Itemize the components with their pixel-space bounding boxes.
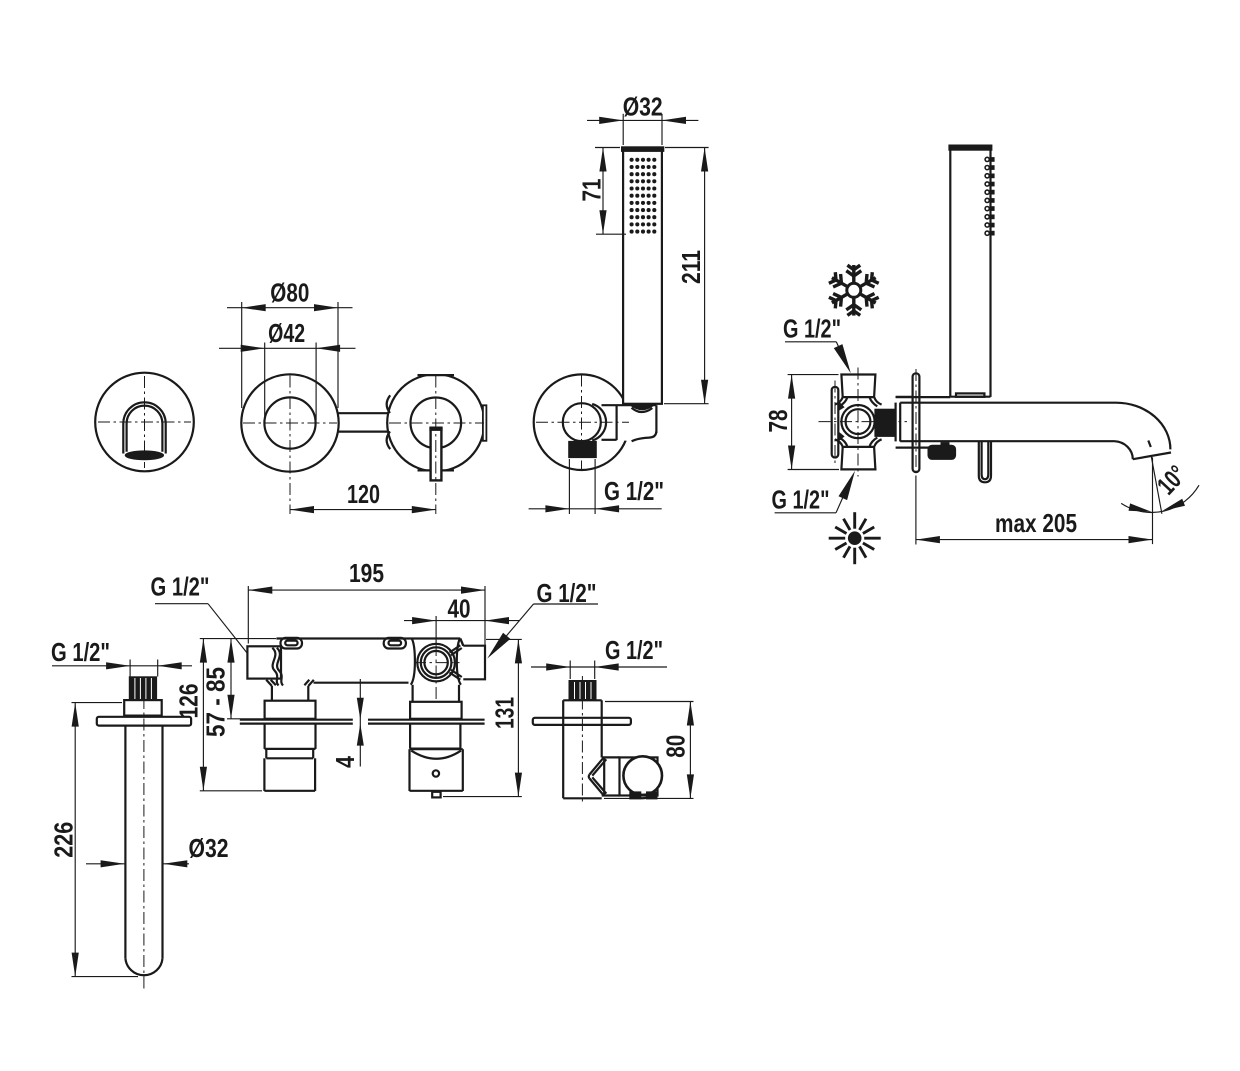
svg-text:4: 4 xyxy=(330,756,360,768)
handle trim bottom chord tab xyxy=(418,469,455,471)
mixer trim inner circle xyxy=(264,397,315,448)
holder centerline horizontal xyxy=(536,421,629,423)
svg-text:80: 80 xyxy=(660,735,690,758)
hose connection hook xyxy=(979,442,991,483)
beam break squiggle double S xyxy=(272,648,278,686)
dimension 211 (wand length) xyxy=(704,148,706,404)
svg-text:max 205: max 205 xyxy=(995,508,1077,538)
mixer trim centerlines xyxy=(243,422,337,424)
spout collar xyxy=(894,403,896,442)
holder outlet depth arc xyxy=(592,404,606,441)
holder clamp black grips xyxy=(630,792,641,799)
left valve ring xyxy=(265,749,267,758)
holder flange plate xyxy=(533,718,631,725)
hand shower wand top cap xyxy=(622,147,664,152)
hand shower wand side view body xyxy=(949,149,951,397)
left valve collar xyxy=(265,701,316,719)
spout escutcheon centerlines xyxy=(98,421,191,423)
cold water snowflake icon xyxy=(829,265,879,316)
beam top edge xyxy=(277,637,461,639)
svg-text:Ø42: Ø42 xyxy=(268,318,305,348)
spout tube centerline xyxy=(143,697,145,990)
spout flange plate xyxy=(97,717,191,726)
wall mounting plate (behind wall) xyxy=(832,387,839,458)
angle extension slanted 10 deg xyxy=(1151,456,1162,514)
valve centerline vertical xyxy=(857,368,859,477)
svg-text:Ø32: Ø32 xyxy=(623,92,663,122)
svg-text:Ø80: Ø80 xyxy=(270,278,309,308)
wall escutcheon plate side view xyxy=(913,373,920,472)
hand shower wand side view top cap xyxy=(949,145,992,150)
svg-text:G 1/2": G 1/2" xyxy=(605,635,663,665)
right valve body waists xyxy=(411,639,415,685)
svg-text:120: 120 xyxy=(347,479,380,509)
handle trim right tab xyxy=(483,405,487,441)
dimension 131 (total depth) xyxy=(517,639,519,796)
holder thread black block xyxy=(569,681,596,701)
holder bracket wavy bottom edge xyxy=(632,431,657,441)
escutcheon centerline xyxy=(915,369,917,477)
svg-text:57 - 85: 57 - 85 xyxy=(200,667,230,737)
svg-text:Ø32: Ø32 xyxy=(189,833,229,863)
diverter knob black xyxy=(941,443,949,446)
svg-text:78: 78 xyxy=(763,410,793,433)
spout front arch outer xyxy=(123,402,165,453)
wand nozzle strip xyxy=(985,157,995,235)
handle trim top chord tab xyxy=(418,374,455,376)
right valve cartridge rings xyxy=(417,644,455,682)
beam right chamfer xyxy=(460,639,463,646)
angle arc arrows xyxy=(1129,503,1152,512)
handle trim left lugs xyxy=(387,395,391,413)
holder escutcheon outer circle xyxy=(534,374,630,470)
mixer trim outer circle xyxy=(241,374,338,471)
valve cartridge rings xyxy=(841,405,874,438)
holder body xyxy=(563,699,602,701)
spout outer bend xyxy=(1116,403,1170,450)
holder clamp square plate xyxy=(620,757,658,795)
connecting bar between trims xyxy=(339,412,388,414)
svg-text:195: 195 xyxy=(349,558,384,588)
holder saddle lower arc xyxy=(632,408,653,412)
holder thread black block xyxy=(569,441,597,457)
svg-text:G 1/2": G 1/2" xyxy=(783,314,841,344)
dimension 57-85 (plaster range) xyxy=(230,639,232,719)
plate gap dark wedges xyxy=(839,401,845,411)
handle trim flats mask xyxy=(416,371,456,375)
svg-text:226: 226 xyxy=(49,822,79,858)
valve body bottom port xyxy=(841,447,875,470)
right valve protection cap with dome xyxy=(408,749,410,791)
beam bottom edge xyxy=(314,682,409,684)
dimension 4 (wall gap) xyxy=(359,679,361,767)
spout pipe bottom xyxy=(900,440,1114,442)
dimension 71 (spray face length) xyxy=(602,148,604,235)
wall surface lines xyxy=(240,719,353,721)
spout thread black block xyxy=(129,677,156,700)
spout tube xyxy=(124,726,126,959)
spout tip cut edge xyxy=(1133,453,1171,460)
screw boss right (pill with window) xyxy=(384,638,406,649)
valve body top port xyxy=(841,375,875,398)
wand support shelf xyxy=(896,396,951,398)
left valve body xyxy=(264,724,266,749)
svg-text:71: 71 xyxy=(577,179,607,202)
left valve neck xyxy=(266,680,272,686)
screw boss left (pill with window) xyxy=(281,638,303,649)
fitting shoulders xyxy=(896,396,913,398)
spout outlet ellipse xyxy=(125,451,163,460)
handle centerlines xyxy=(389,422,484,424)
spout front arch inner xyxy=(127,406,163,452)
valve fillet wedges xyxy=(835,397,843,404)
spout inner bend xyxy=(1115,441,1133,459)
svg-text:126: 126 xyxy=(173,684,203,719)
right valve centerline xyxy=(435,644,437,700)
dimension 226 (spout length) xyxy=(74,703,76,977)
beam right end cap xyxy=(463,646,485,680)
plate centerline xyxy=(834,381,836,464)
right valve body below wall xyxy=(409,724,411,748)
hot water sun icon xyxy=(829,512,881,564)
holder outlet inner circle xyxy=(563,403,601,441)
hand shower wand (front view) xyxy=(623,149,662,404)
holder centerline xyxy=(581,676,583,802)
right valve corner wedges xyxy=(450,645,461,652)
spray face nozzle dots xyxy=(630,158,657,234)
svg-text:G 1/2": G 1/2" xyxy=(772,485,830,515)
svg-text:G 1/2": G 1/2" xyxy=(604,476,664,506)
handle trim inner circle xyxy=(411,398,462,449)
svg-text:G 1/2": G 1/2" xyxy=(51,637,110,667)
dimension 78 (body height) xyxy=(791,375,793,470)
spout escutcheon circle xyxy=(95,373,194,472)
holder bracket xyxy=(617,405,657,441)
holder saddle dark crescent xyxy=(629,404,654,409)
dimension 126 (depth) xyxy=(202,639,204,791)
beam left end cap xyxy=(247,646,281,678)
cap detail circle xyxy=(433,770,439,776)
svg-text:40: 40 xyxy=(448,594,471,624)
right valve collar xyxy=(410,702,462,719)
left valve protection cap xyxy=(263,758,265,791)
spout pipe top xyxy=(900,402,1116,404)
handle trim outer circle xyxy=(387,374,484,471)
dimension 80 (holder depth) xyxy=(689,702,691,799)
angle arc xyxy=(1121,485,1199,512)
svg-text:131: 131 xyxy=(490,697,520,729)
svg-text:211: 211 xyxy=(676,250,706,284)
spout collar xyxy=(124,700,162,716)
holder cup cone xyxy=(590,757,604,774)
cartridge nut black xyxy=(875,409,895,436)
angle extension vertical xyxy=(1152,457,1154,544)
holder centerline vertical xyxy=(581,375,583,470)
valve centerline horizontal xyxy=(819,421,908,423)
holder clamp circle xyxy=(623,756,662,795)
spout tip center tick xyxy=(1148,441,1151,448)
handle lever xyxy=(431,428,442,480)
cap bottom pin xyxy=(432,792,440,798)
holder cup arm neck xyxy=(602,756,620,758)
svg-text:G 1/2": G 1/2" xyxy=(151,572,210,602)
